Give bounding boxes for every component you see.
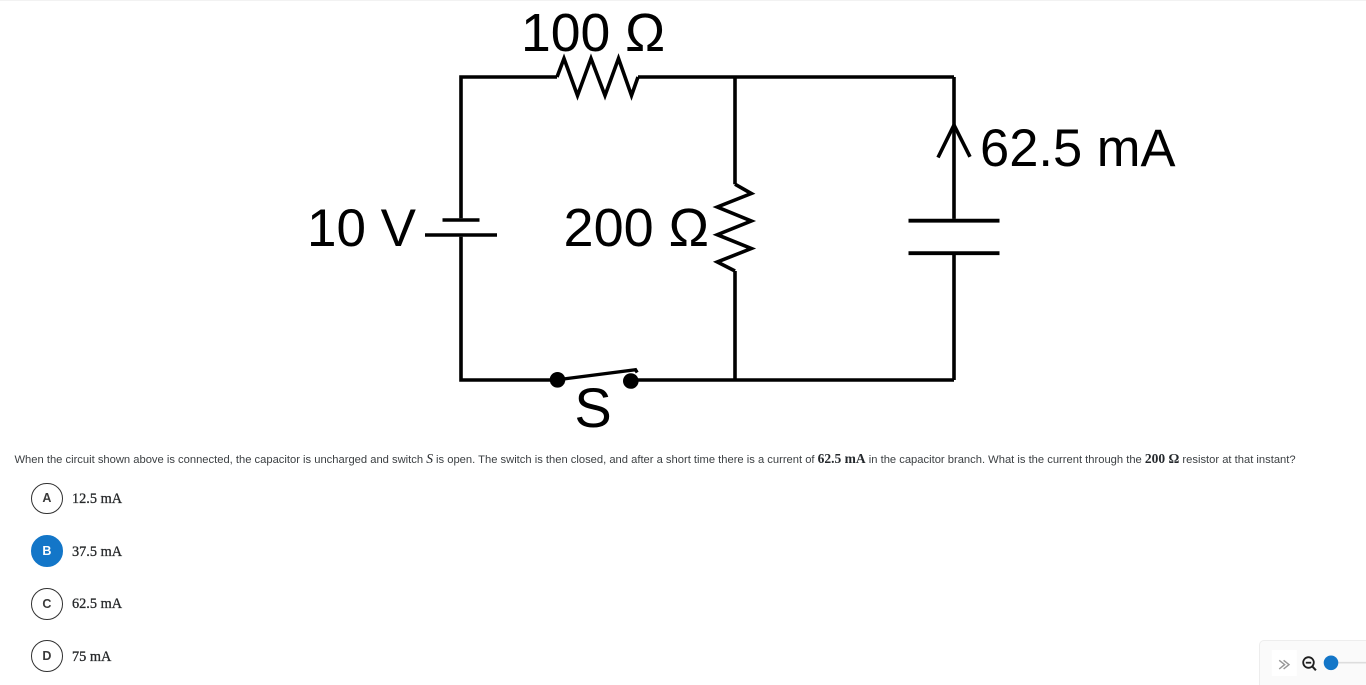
option B (selected) [31, 535, 63, 567]
collapse button (white square) [1272, 650, 1297, 676]
wire: top-left corner (battery positive lead up and across to R1) [461, 77, 557, 218]
wire: top segment from R1 to top-right corner [638, 75, 954, 79]
wire: right side upper lead (capacitor branch) [952, 77, 956, 219]
wire: 200 ohm branch lower lead to bottom wire [733, 271, 737, 380]
switch S right contact node [623, 373, 639, 389]
zoom toolbar panel [1259, 640, 1366, 685]
capacitor C1 top plate [909, 219, 1000, 223]
zoom slider track [1337, 662, 1366, 664]
wire: bottom segment from switch to 200 ohm branch and right corner [630, 378, 954, 382]
switch S left contact node [550, 372, 566, 388]
battery B1 long plate (positive terminal) [425, 233, 497, 237]
resistor R2 200 ohm (vertical zigzag) [717, 184, 751, 271]
option C [31, 588, 63, 620]
collapse chevron » [1279, 660, 1284, 669]
option A [31, 483, 63, 515]
current arrow 62.5 mA (open arrowhead on capacitor branch) [938, 125, 970, 158]
node: junction of top wire and 200 ohm branch [733, 77, 737, 184]
battery B1 short plate (negative terminal) [443, 218, 480, 222]
zoom-out magnifier icon [1303, 657, 1314, 668]
capacitor C1 bottom plate [909, 251, 1000, 255]
question text [15, 451, 1366, 468]
resistor R1 100 ohm (horizontal zigzag) [557, 59, 638, 96]
option D [31, 640, 63, 672]
wire: left side below battery to bottom-left corner [461, 237, 552, 380]
circuit figure [0, 1, 1366, 446]
zoom slider thumb (blue dot) [1324, 656, 1339, 671]
wire: right side lower lead from capacitor to bottom-right corner [952, 255, 956, 380]
switch S lever (open blade) [558, 370, 638, 380]
